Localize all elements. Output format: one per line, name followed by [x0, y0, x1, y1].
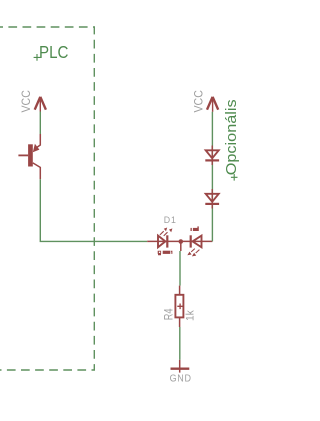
diode (optional chain, upper): [205, 146, 219, 166]
Opcionalis text origin cross: [231, 174, 238, 181]
wire R4 to ground: [179, 327, 181, 360]
svg-text:VCC: VCC: [21, 90, 34, 112]
base bar: [28, 144, 33, 166]
emission arrows: [160, 231, 168, 236]
power symbol VCC (right): [207, 97, 218, 112]
pin lead: [147, 240, 181, 242]
collector lead (bottom): [33, 163, 41, 179]
pin lead: [181, 240, 212, 242]
value label red: [191, 226, 199, 231]
wire LED cathode up to diode chain and VCC (right): [211, 112, 213, 242]
ground GND symbol: [171, 360, 190, 373]
power symbol VCC (left): [35, 97, 46, 112]
emission arrows: [191, 249, 199, 253]
pin R4 bottom: [179, 317, 181, 327]
base lead: [18, 154, 28, 156]
triangle: [158, 236, 165, 248]
diode (optional chain, lower): [205, 189, 219, 209]
wire junction to resistor R4: [179, 251, 181, 286]
transistor (PNP): [18, 134, 40, 179]
wire VCC arrow to transistor emitter: [39, 112, 41, 135]
triangle: [193, 236, 202, 248]
PLC text origin cross: [34, 54, 41, 61]
LED D1 green element: [147, 228, 181, 248]
cathode bar: [190, 235, 192, 247]
pin R4 top: [179, 286, 181, 295]
svg-text:PLC: PLC: [39, 42, 68, 63]
svg-text:Opcionális: Opcionális: [224, 99, 240, 175]
pin stub below junction: [180, 243, 182, 251]
svg-text:1k: 1k: [184, 310, 196, 321]
value label green: [158, 251, 173, 256]
svg-text:VCC: VCC: [193, 90, 206, 112]
svg-text:D1: D1: [164, 215, 177, 225]
svg-text:GND: GND: [170, 373, 192, 385]
emitter lead (top) with arrow: [36, 134, 40, 148]
resistor R4: [175, 295, 183, 318]
PLC enclosure dashed box: [0, 27, 94, 370]
LED D1 red element: [181, 235, 212, 256]
junction dot node: [179, 239, 184, 244]
svg-text:R4: R4: [162, 309, 176, 321]
resistor origin cross: [177, 304, 183, 310]
wire transistor collector down and right to LED: [40, 179, 147, 241]
cathode bar: [166, 235, 168, 247]
